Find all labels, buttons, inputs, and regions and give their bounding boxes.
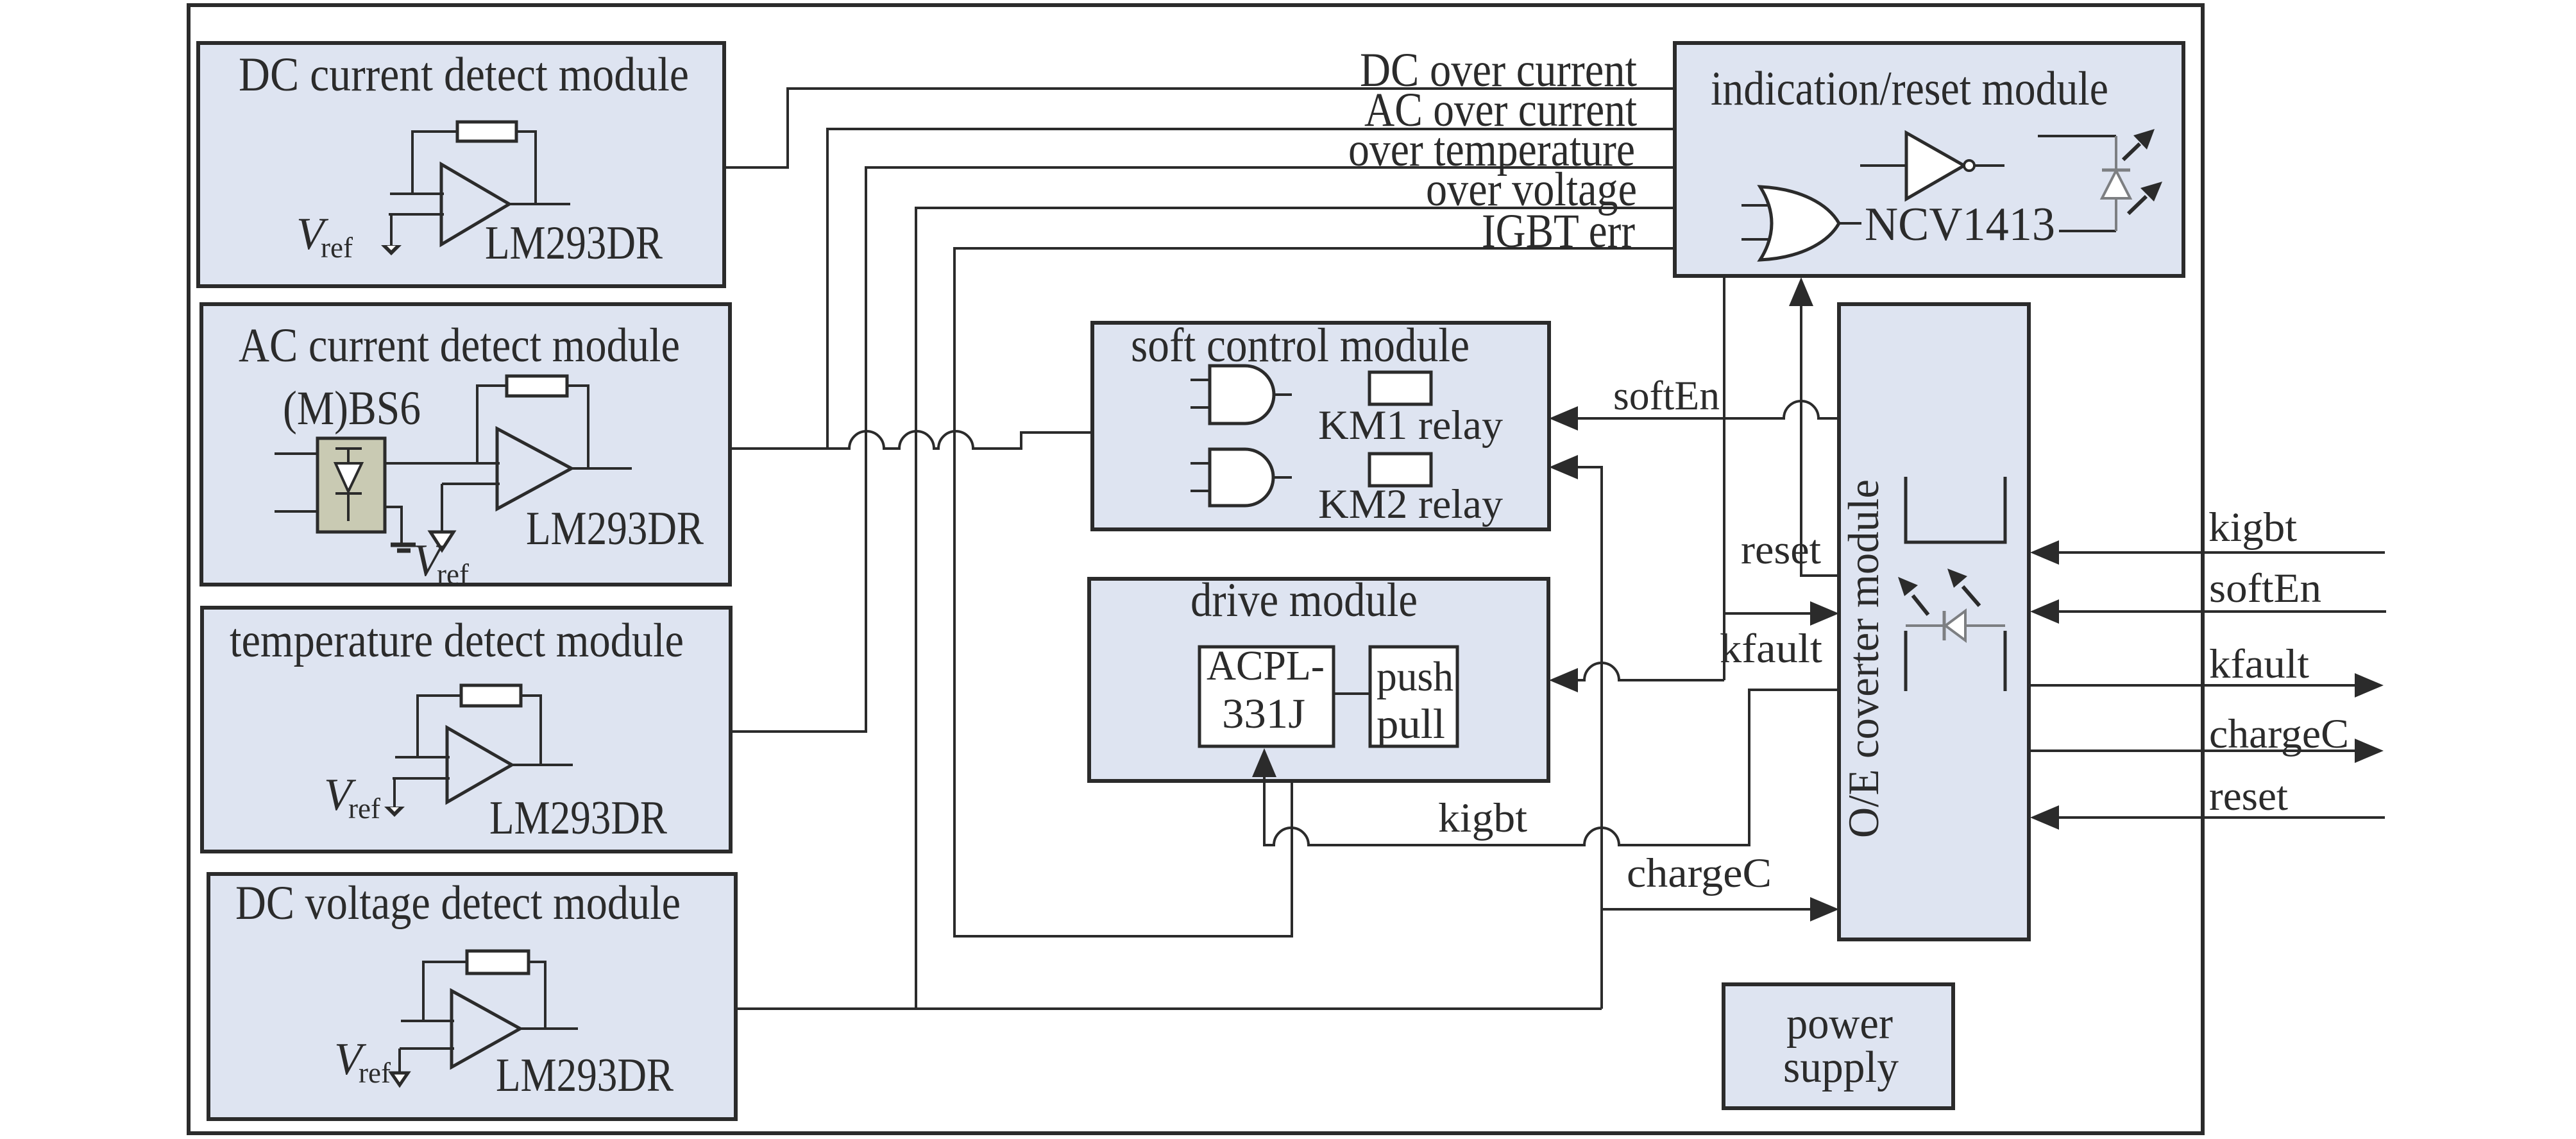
wire fault to drive module with hop (1577, 663, 1724, 680)
op-amp feedback wire U2 (AC) (477, 386, 507, 463)
ground Vref arrow U3 (384, 807, 405, 817)
wire kigbt from O/E to ACPL with hops (1264, 690, 1839, 845)
module box indication/reset (1675, 43, 2183, 276)
wire softEn from O/E to soft control module (1577, 401, 1839, 418)
inverter bubble (1964, 160, 1974, 171)
svg-text:kfault: kfault (1720, 626, 1822, 672)
svg-text:ref: ref (359, 1057, 391, 1089)
svg-text:temperature detect module: temperature detect module (230, 614, 684, 667)
wire AC over current (827, 129, 1675, 449)
op-amp feedback wire U3 (temp) (418, 696, 461, 757)
bracket lower right (2004, 631, 2007, 691)
svg-text:chargeC: chargeC (1627, 850, 1772, 896)
phototransistor bracket top (1906, 477, 2005, 542)
wire inverting input U4 (DCV) (400, 1049, 454, 1073)
wire kfault output right (2029, 684, 2356, 687)
svg-text:supply: supply (1783, 1043, 1899, 1092)
inverter buffer U6 (1906, 133, 1964, 199)
op-amp U3 (temp) (447, 728, 512, 802)
op-amp U1 (DC) (441, 164, 509, 244)
svg-text:reset: reset (1741, 527, 1821, 573)
LED light arrows O/E (1913, 595, 1928, 615)
wire G1 inputs (1191, 380, 1210, 407)
wire DC voltage output (736, 1007, 1602, 1010)
svg-text:softEn: softEn (2209, 565, 2321, 612)
wire inverter output (1974, 164, 2004, 167)
svg-text:LM293DR: LM293DR (526, 502, 704, 555)
outer border frame (189, 5, 2203, 1133)
wire DC over current (724, 89, 1675, 167)
svg-text:ACPL-: ACPL- (1207, 642, 1325, 689)
relay KM1 box (1369, 372, 1431, 404)
wire over temperature (731, 167, 1675, 732)
svg-text:ref: ref (348, 792, 380, 825)
wire OR gate inputs (1741, 205, 1768, 239)
wire reset to indication module (1801, 306, 1839, 576)
photodiode inside (M)BS6 (335, 449, 362, 463)
push pull box (1370, 647, 1457, 746)
wire inverting input U1 (DC) (389, 214, 444, 246)
OR gate U5 (1760, 187, 1839, 260)
svg-text:KM2 relay: KM2 relay (1318, 481, 1503, 527)
svg-text:331J: 331J (1222, 690, 1305, 737)
svg-text:kigbt: kigbt (1438, 795, 1527, 841)
svg-text:pull: pull (1377, 701, 1445, 748)
module box AC current detect (201, 304, 730, 585)
module box soft control (1092, 323, 1549, 529)
AND gate G2 (1210, 449, 1273, 506)
op-amp U2 (AC) (497, 429, 572, 509)
wire LED cathode (2059, 230, 2116, 232)
svg-text:ref: ref (437, 558, 469, 590)
wire G2 output (1274, 476, 1292, 479)
wire fault from indication to O/E kfault (1723, 276, 1725, 680)
wire inverting input U3 (temp) (393, 778, 450, 807)
svg-text:kfault: kfault (2209, 641, 2309, 687)
module box power supply (1724, 984, 1953, 1108)
wire chargeC output right (2029, 749, 2356, 752)
op-amp feedback wire U4 (DCV) (423, 962, 467, 1021)
svg-text:(M)BS6: (M)BS6 (283, 382, 421, 435)
resistor feedback U4 (DCV) (467, 951, 529, 973)
wire G2 inputs (1191, 463, 1210, 491)
svg-text:soft control module: soft control module (1131, 319, 1470, 372)
svg-text:softEn: softEn (1613, 373, 1720, 419)
module box O/E coverter (1839, 304, 2029, 939)
wire non-inverting input U2 (AC) (385, 462, 500, 465)
wire AC output with hops to soft control module (730, 431, 1092, 449)
wire inverter input (1860, 164, 1906, 167)
wire ACPL to push pull (1334, 692, 1370, 695)
svg-text:indication/reset module: indication/reset module (1711, 62, 2108, 116)
wire output U3 (temp) (512, 764, 573, 766)
Vref open triangle U4 (391, 1073, 408, 1085)
wire OR gate output (1839, 222, 1861, 225)
wire non-inverting input U1 (DC) (390, 193, 444, 195)
svg-text:DC current detect module: DC current detect module (239, 48, 689, 101)
wire G1 output (1274, 393, 1292, 396)
svg-text:push: push (1377, 653, 1453, 700)
LED light arrows (2123, 144, 2140, 160)
wire output U2 (AC) (572, 467, 632, 470)
svg-text:IGBT err: IGBT err (1482, 205, 1635, 258)
wire non-inverting input U4 (DCV) (401, 1020, 454, 1022)
resistor feedback U2 (AC) (507, 376, 567, 396)
LED D2 emitter (1906, 624, 2005, 627)
wire softEn input right (2058, 610, 2386, 613)
op-amp feedback wire U1 (DC) (412, 132, 457, 194)
svg-text:power: power (1786, 999, 1893, 1049)
wire chargeC to O/E (1602, 908, 1811, 911)
svg-text:LM293DR: LM293DR (489, 792, 668, 844)
ground Vref arrow U1 (381, 245, 402, 255)
module box drive (1089, 579, 1548, 781)
op-amp U4 (DCV) (452, 991, 520, 1067)
wire non-inverting input U3 (temp) (395, 756, 450, 758)
wire output U1 (DC) (509, 203, 570, 205)
wire over voltage (916, 208, 1675, 1009)
resistor feedback U3 (temp) (461, 685, 521, 706)
svg-text:drive module: drive module (1191, 574, 1418, 627)
svg-text:LM293DR: LM293DR (485, 217, 663, 270)
svg-text:KM1 relay: KM1 relay (1318, 402, 1503, 449)
wire kigbt input right (2058, 551, 2385, 554)
wire chargeC spine to soft control (1577, 467, 1602, 1009)
svg-text:reset: reset (2209, 773, 2288, 819)
wire reset input right (2058, 816, 2385, 819)
wire output U4 (DCV) (520, 1027, 578, 1030)
relay KM2 box (1369, 454, 1431, 486)
AND gate G1 (1210, 366, 1274, 424)
wire inverting input U2 (AC) (442, 484, 500, 532)
resistor feedback U1 (DC) (457, 122, 516, 141)
wire (M)BS6 input pin 1 (275, 452, 318, 455)
wire (M)BS6 input pin 2 (275, 510, 318, 513)
module box temperature detect (202, 608, 731, 852)
svg-text:kigbt: kigbt (2208, 504, 2297, 551)
wire (M)BS6 output to ground (385, 507, 402, 543)
module box DC voltage detect (208, 874, 736, 1119)
svg-text:O/E coverter module: O/E coverter module (1839, 479, 1888, 838)
module box DC current detect (198, 43, 724, 286)
bracket lower left (1904, 631, 1908, 691)
svg-text:chargeC: chargeC (2209, 711, 2349, 757)
wire LED anode (2038, 135, 2116, 137)
svg-text:AC current detect module: AC current detect module (239, 319, 680, 372)
svg-text:ref: ref (321, 232, 353, 264)
svg-text:LM293DR: LM293DR (496, 1049, 674, 1102)
LED D1 (2115, 136, 2117, 231)
photocoupler (M)BS6 box (318, 438, 385, 532)
svg-text:DC voltage detect module: DC voltage detect module (235, 877, 681, 930)
wire IGBT err from drive module (954, 248, 1675, 936)
chassis ground AC module (391, 543, 416, 547)
IC ACPL-331J box (1199, 647, 1334, 746)
Vref open triangle U2 (430, 532, 453, 550)
svg-text:NCV1413: NCV1413 (1865, 198, 2055, 251)
